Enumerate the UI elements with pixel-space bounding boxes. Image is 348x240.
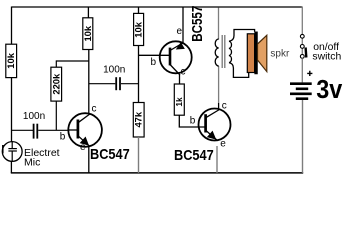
- svg-text:100n: 100n: [23, 111, 45, 122]
- capacitor C1 100n: [12, 111, 69, 138]
- svg-text:b: b: [60, 132, 66, 143]
- wire Q2 emitter to top rail: [182, 7, 184, 44]
- svg-text:10k: 10k: [82, 25, 93, 41]
- wire mic to bottom rail: [10, 161, 12, 173]
- svg-text:c: c: [181, 67, 186, 78]
- svg-text:b: b: [190, 115, 196, 126]
- transformer T1 core: [222, 35, 225, 68]
- svg-text:47k: 47k: [133, 111, 144, 127]
- resistor R5 47k: [133, 103, 144, 138]
- svg-text:BC547: BC547: [174, 146, 214, 163]
- svg-text:b: b: [151, 57, 157, 68]
- speaker: [247, 32, 290, 74]
- transformer T1 primary coil: [215, 39, 218, 66]
- capacitor C2 100n: [89, 65, 139, 91]
- wire Q3 collector stub: [218, 103, 220, 111]
- electret mic: [2, 142, 59, 169]
- svg-text:220k: 220k: [50, 73, 61, 95]
- svg-text:e: e: [80, 142, 86, 153]
- wire top rail right corner to switch (gray): [301, 7, 303, 35]
- wire R3 to Q1 collector: [88, 50, 90, 114]
- svg-text:10k: 10k: [5, 52, 16, 68]
- wire Q2 collector to 1k: [179, 75, 181, 84]
- wire top rail to transformer primary (gray): [218, 8, 220, 40]
- wire left rail lower: [11, 78, 13, 142]
- wire Q2 base: [139, 54, 171, 56]
- wire secondary bottom to speaker: [229, 63, 249, 78]
- transistor Q2 BC557: [151, 6, 206, 78]
- wire top rail: [12, 6, 303, 8]
- on/off switch: [300, 34, 341, 62]
- wire switch to battery (gray): [301, 58, 303, 82]
- wire 1k to Q3 base: [179, 115, 205, 127]
- svg-text:3v: 3v: [316, 76, 342, 104]
- svg-text:Mic: Mic: [24, 157, 40, 169]
- svg-text:c: c: [222, 100, 227, 111]
- svg-text:e: e: [220, 138, 226, 149]
- resistor R3 10k: [82, 18, 93, 50]
- resistor R2 220k: [50, 60, 89, 130]
- wire 10k R3 top: [87, 7, 89, 18]
- wire battery to bottom rail (gray): [302, 100, 304, 173]
- svg-text:100n: 100n: [103, 65, 125, 76]
- svg-text:e: e: [177, 26, 183, 37]
- svg-text:BC547: BC547: [90, 145, 130, 162]
- svg-text:c: c: [92, 104, 97, 115]
- wire left rail upper: [11, 7, 13, 45]
- svg-text:10k: 10k: [133, 21, 144, 37]
- transistor Q3 BC547: [174, 100, 231, 163]
- svg-text:switch: switch: [312, 51, 341, 62]
- wire 47k to bottom rail: [138, 137, 140, 173]
- wire secondary top to speaker: [229, 30, 255, 42]
- resistor R1 10k: [5, 44, 16, 77]
- wire bottom rail: [11, 172, 303, 174]
- wire Q3 emitter to bottom rail (gray): [216, 146, 218, 173]
- wire Q1 emitter to bottom rail: [88, 147, 90, 173]
- svg-text:spkr: spkr: [270, 49, 290, 60]
- battery B1 3v: [290, 71, 342, 104]
- wire 10k R4 top: [138, 7, 140, 14]
- transistor Q1 BC547: [60, 104, 130, 163]
- wire R4 to 47k: [138, 45, 140, 102]
- svg-text:BC557: BC557: [189, 6, 206, 42]
- wire Q3 collector to transformer primary (gray): [218, 66, 220, 103]
- resistor R4 10k: [133, 13, 144, 45]
- transformer T1 secondary coil: [229, 41, 232, 62]
- resistor R6 1k: [174, 84, 184, 115]
- svg-text:1k: 1k: [174, 97, 184, 107]
